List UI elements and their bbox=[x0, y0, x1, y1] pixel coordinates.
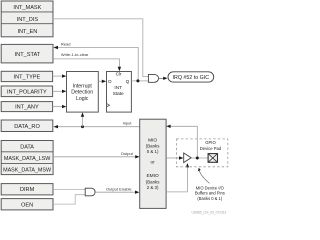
figure id bbox=[192, 210, 227, 214]
svg-text:INT_TYPE: INT_TYPE bbox=[14, 75, 41, 81]
register INT_STAT bbox=[1, 44, 53, 63]
wire INT_TYPE to IDL bbox=[53, 74, 67, 77]
svg-text:MASK_DATA_MSW: MASK_DATA_MSW bbox=[3, 167, 52, 173]
svg-text:or: or bbox=[151, 160, 156, 165]
svg-text:Clr: Clr bbox=[116, 72, 122, 77]
svg-text:INT: INT bbox=[114, 85, 122, 90]
svg-text:OEN: OEN bbox=[21, 203, 33, 209]
dashed box GPIO Device Pad bbox=[177, 139, 228, 167]
wire OEN to enable gate bbox=[53, 195, 85, 204]
register DATA_RO bbox=[1, 120, 53, 132]
svg-text:DATA: DATA bbox=[20, 144, 34, 150]
junction dot bbox=[196, 157, 199, 160]
svg-text:Q: Q bbox=[126, 79, 130, 84]
wire buffer to pad bbox=[191, 157, 208, 160]
svg-text:Device Pad: Device Pad bbox=[200, 146, 222, 151]
wire Q output to AND gate bbox=[131, 79, 148, 82]
svg-text:MIO: MIO bbox=[148, 138, 157, 144]
svg-text:MASK_DATA_LSW: MASK_DATA_LSW bbox=[4, 156, 51, 162]
wire MIO to buffer enable bbox=[166, 163, 189, 192]
svg-text:INT_STAT: INT_STAT bbox=[15, 52, 41, 58]
svg-text:INT_POLARITY: INT_POLARITY bbox=[7, 89, 47, 95]
svg-text:Write-1-to-clear: Write-1-to-clear bbox=[61, 52, 89, 57]
wire INT_POLARITY to IDL bbox=[53, 90, 67, 93]
svg-text:2 & 3): 2 & 3) bbox=[147, 185, 159, 190]
svg-text:INT_ANY: INT_ANY bbox=[15, 105, 39, 111]
svg-text:0 & 1): 0 & 1) bbox=[147, 149, 159, 154]
wire IDL output to D input bbox=[98, 80, 106, 83]
svg-text:State: State bbox=[113, 91, 124, 96]
svg-text:DIRM: DIRM bbox=[20, 187, 35, 193]
svg-text:Input: Input bbox=[123, 120, 133, 125]
svg-text:(Banks: (Banks bbox=[146, 144, 160, 149]
svg-text:(Banks 0 & 1): (Banks 0 & 1) bbox=[197, 196, 222, 201]
register DIRM bbox=[1, 184, 53, 195]
svg-text:INT_EN: INT_EN bbox=[17, 29, 37, 35]
wire Write-1-to-clear to Clr pin bbox=[53, 52, 121, 71]
wire input: MIO to DATA_RO bbox=[53, 112, 166, 128]
wire mask status to IRQ AND gate bbox=[53, 19, 148, 77]
svg-text:Output Enable: Output Enable bbox=[106, 187, 132, 192]
block U2 Interrupt Detection Logic bbox=[67, 72, 99, 113]
wire gate output to IRQ node bbox=[159, 77, 168, 80]
svg-text:Interrupt: Interrupt bbox=[73, 84, 93, 90]
svg-text:MIO Device I/O: MIO Device I/O bbox=[196, 185, 224, 190]
svg-text:Detection: Detection bbox=[71, 90, 93, 96]
wire DIRM to enable gate bbox=[53, 188, 85, 190]
register OEN bbox=[1, 199, 53, 210]
svg-text:INT_MASK: INT_MASK bbox=[13, 5, 41, 11]
svg-text:GPIO: GPIO bbox=[205, 140, 216, 145]
wire Output Enable to MIO bbox=[95, 187, 139, 194]
buffer U6 bbox=[184, 153, 192, 163]
pad symbol bbox=[208, 154, 217, 163]
svg-text:Output: Output bbox=[121, 151, 134, 156]
register group DATA/MASK_DATA_LSW/MASK_DATA_MSW bbox=[1, 141, 53, 175]
svg-text:UG585_c14_03_072313: UG585_c14_03_072313 bbox=[192, 210, 227, 214]
svg-text:DATA_RO: DATA_RO bbox=[14, 124, 40, 130]
AND gate U4 (IRQ gate) bbox=[148, 74, 158, 82]
wire Read (Q line to INT_STAT) bbox=[53, 42, 138, 81]
flip-flop U3 INT State bbox=[107, 72, 132, 113]
svg-text:(Banks: (Banks bbox=[146, 179, 160, 184]
register group INT_MASK/INT_DIS/INT_EN bbox=[1, 1, 53, 37]
svg-text:Read: Read bbox=[61, 42, 71, 47]
wire output: DATA to MIO bbox=[53, 151, 140, 158]
svg-text:INT_DIS: INT_DIS bbox=[17, 17, 39, 23]
register INT_POLARITY bbox=[1, 86, 52, 97]
register INT_TYPE bbox=[1, 71, 52, 81]
wire MIO to buffer (output path) bbox=[166, 156, 183, 159]
clock pin bbox=[107, 104, 110, 107]
register INT_ANY bbox=[1, 102, 52, 112]
block MIO/EMIO bbox=[140, 119, 166, 208]
svg-text:EMIO: EMIO bbox=[146, 173, 159, 179]
label MIO Device I/O Buffers and Pins bbox=[195, 168, 225, 201]
svg-text:Logic: Logic bbox=[76, 96, 89, 102]
AND gate U5 output enable bbox=[85, 188, 95, 196]
wire pad node to MIO (input path) bbox=[166, 125, 197, 158]
junction dot bbox=[136, 79, 139, 82]
junction node to IDL bbox=[81, 125, 84, 128]
svg-text:IRQ #52 to GIC: IRQ #52 to GIC bbox=[173, 75, 210, 81]
wire INT_ANY to IDL bbox=[53, 105, 67, 108]
node IRQ #52 to GIC bbox=[168, 72, 214, 82]
